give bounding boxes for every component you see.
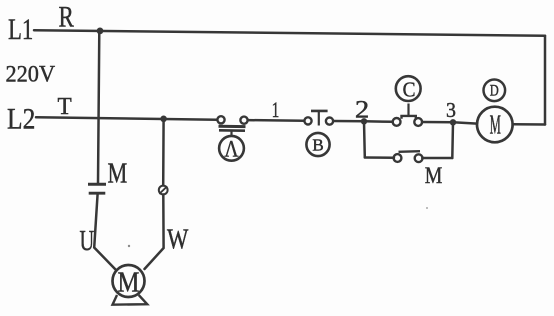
contact M right terminal — [415, 154, 423, 162]
pushbutton B (NO) — [304, 111, 333, 156]
label circle B — [306, 133, 329, 156]
connector circle with slash on W line — [159, 186, 168, 195]
wire between pushbutton B and node 2 — [333, 120, 364, 123]
wire motor D right lead — [513, 123, 545, 126]
svg-text:M: M — [490, 109, 501, 140]
svg-text:B: B — [312, 136, 323, 155]
contact A (NC bridge contact) — [217, 116, 247, 161]
svg-text:T: T — [58, 94, 73, 120]
wire right vertical (L1 to motor D) — [544, 36, 547, 125]
pushbutton B plunger cap — [311, 110, 328, 113]
wire parallel branch left vertical from node2 — [363, 121, 366, 157]
node 3 junction — [450, 119, 456, 125]
motor M base trapezoid — [113, 295, 148, 305]
junction dot at W branch on L2 — [160, 116, 167, 123]
svg-text:D: D — [490, 82, 499, 100]
wire parallel branch bottom left — [365, 156, 394, 159]
svg-text:R: R — [59, 0, 75, 33]
contact M self-holding (NO bridge above) — [394, 151, 423, 162]
contact C bridge bar with hooks — [402, 116, 416, 119]
wire U vertical lower below main contact — [94, 194, 116, 270]
svg-text:220V: 220V — [6, 61, 56, 86]
contact A bridge bar lower — [219, 129, 245, 132]
svg-text:C: C — [403, 79, 416, 102]
wire W vertical lower — [145, 195, 164, 270]
wire W vertical upper (L2 down to connector) — [162, 119, 165, 186]
contact M left terminal — [394, 154, 402, 162]
label circle D — [484, 80, 506, 102]
contact A bridge bar upper — [219, 125, 246, 128]
motor coil M (right) — [477, 107, 513, 143]
wire vertical drop from L1 to main contact M — [98, 31, 99, 184]
pushbutton B plunger stem — [318, 112, 320, 126]
contact M bridge bar — [399, 150, 421, 153]
contact A right terminal — [240, 117, 247, 124]
wire node3 to coil M left lead — [453, 122, 477, 123]
svg-text:L1: L1 — [8, 12, 33, 46]
speck upper right area — [426, 207, 428, 209]
svg-text:M: M — [118, 266, 140, 298]
wire L1 top horizontal — [34, 30, 545, 36]
wire between contact A and pushbutton B — [248, 119, 305, 122]
motor M (bottom) circle — [113, 265, 145, 297]
main contact upper plate — [88, 183, 106, 186]
contact A stem to label — [230, 131, 232, 136]
svg-text:3: 3 — [446, 100, 456, 123]
contact C (NO bridge above) — [393, 76, 422, 126]
contact A left terminal — [217, 116, 224, 123]
wire L2 horizontal: L2 text to contact A — [36, 117, 217, 119]
main contact lower plate — [89, 192, 106, 195]
wire parallel branch bottom right — [422, 157, 452, 160]
svg-text:Λ: Λ — [224, 136, 239, 162]
contact C right terminal — [414, 118, 422, 126]
node junction on L1 — [97, 28, 104, 35]
svg-text:2: 2 — [355, 95, 369, 123]
svg-text:1: 1 — [272, 98, 280, 122]
svg-text:L2: L2 — [7, 102, 35, 135]
node 2 junction — [361, 118, 367, 124]
speck near W line — [128, 245, 130, 247]
wire parallel branch right vertical up to node3 — [451, 122, 454, 158]
contact C stem up to label — [407, 104, 409, 116]
label circle C — [396, 76, 421, 101]
svg-text:U: U — [80, 226, 95, 257]
wire node2 to contact C — [364, 120, 393, 123]
contact C left terminal — [393, 118, 401, 126]
svg-text:M: M — [425, 163, 443, 189]
main contact M (capacitor style plates) — [88, 184, 106, 193]
wire contact C to node 3 — [422, 121, 453, 124]
svg-text:M: M — [108, 157, 128, 189]
pushbutton B left terminal — [304, 117, 311, 124]
svg-text:W: W — [167, 223, 189, 255]
pushbutton B right terminal — [326, 118, 333, 125]
label circle A — [219, 136, 244, 161]
